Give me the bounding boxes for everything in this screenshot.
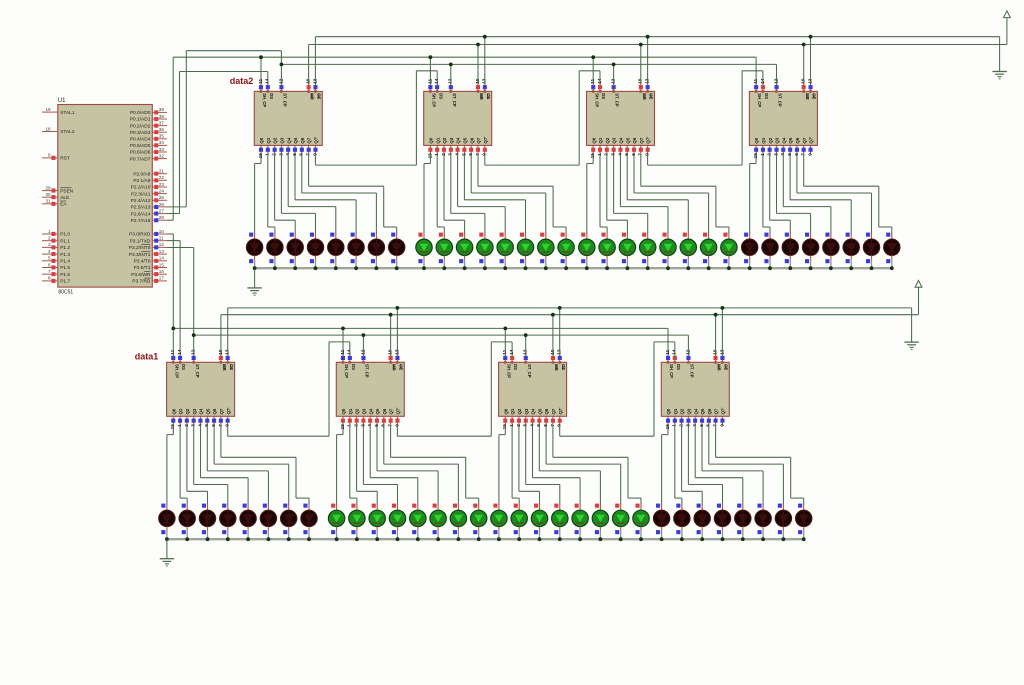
wire SR4 Q3 to LED D28: [777, 154, 811, 234]
svg-text:11: 11: [427, 78, 432, 83]
wire SR8 Q6 to LED D63: [709, 425, 784, 505]
svg-text:13: 13: [225, 349, 230, 355]
svg-text:Q5: Q5: [625, 137, 630, 143]
svg-text:DS: DS: [764, 93, 769, 99]
svg-text:9: 9: [807, 153, 812, 156]
LED D63 (dark off): [775, 504, 791, 540]
svg-text:2: 2: [184, 424, 189, 427]
svg-text:3: 3: [611, 153, 616, 156]
svg-text:Q6: Q6: [795, 137, 800, 143]
svg-text:Q6: Q6: [300, 137, 305, 143]
svg-text:SH_CP: SH_CP: [506, 364, 511, 378]
wire SR5 Q7 to LED D40: [221, 425, 309, 505]
svg-text:DS: DS: [181, 364, 186, 370]
svg-text:P0.6/AD6: P0.6/AD6: [130, 150, 151, 156]
svg-text:Q3: Q3: [362, 408, 367, 414]
svg-text:P0.4/AD4: P0.4/AD4: [130, 137, 151, 143]
svg-text:P3.1/TXD: P3.1/TXD: [130, 238, 151, 244]
wire SR1 Q5 to LED D6: [295, 154, 356, 234]
LED D59 (dark off): [694, 504, 710, 540]
svg-text:Q2: Q2: [273, 137, 278, 143]
LED D49 (green on): [491, 504, 507, 540]
svg-text:15: 15: [665, 424, 670, 430]
svg-text:2: 2: [48, 236, 51, 241]
wire SR6 Q4 to LED D45: [370, 425, 418, 505]
svg-text:Q3: Q3: [687, 408, 692, 414]
wire SR4 Q0 to LED D25: [750, 154, 756, 234]
svg-text:Q2: Q2: [768, 137, 773, 143]
junction dots on data2 LED bus: [253, 266, 894, 270]
svg-text:2: 2: [767, 153, 772, 156]
svg-text:Q7': Q7': [646, 137, 651, 144]
svg-text:P1.0: P1.0: [60, 232, 70, 238]
svg-text:1: 1: [509, 424, 514, 427]
svg-text:SH_CP: SH_CP: [432, 93, 437, 107]
wire SR5 Q5 to LED D38: [207, 425, 268, 505]
svg-text:15: 15: [427, 153, 432, 159]
svg-text:4: 4: [285, 153, 290, 156]
svg-text:P0.7/AD7: P0.7/AD7: [130, 156, 151, 162]
svg-text:ALE: ALE: [60, 195, 69, 201]
wire cascade SR2 Q7' to SR3 DS: [485, 71, 600, 165]
svg-text:14: 14: [509, 349, 514, 355]
wire SR4 Q7 to LED D32: [804, 154, 892, 234]
svg-text:5: 5: [374, 424, 379, 427]
wire SR7 Q2 to LED D51: [519, 425, 540, 505]
wire SR7 Q6 to LED D55: [546, 425, 621, 505]
LED D64 (dark off): [796, 504, 812, 540]
svg-text:ST_CP: ST_CP: [615, 93, 620, 107]
svg-text:P2.4/A12: P2.4/A12: [131, 198, 151, 204]
svg-text:13: 13: [394, 349, 399, 355]
svg-text:9: 9: [312, 153, 317, 156]
svg-text:SH_CP: SH_CP: [344, 364, 349, 378]
LED D29 (dark off): [823, 233, 839, 269]
svg-text:ST_CP: ST_CP: [452, 93, 457, 107]
wire SR6 Q1 to LED D42: [350, 425, 357, 505]
wire SR1 Q1 to LED D2: [268, 154, 275, 234]
LED D8 (dark off): [389, 233, 405, 269]
LED D39 (dark off): [281, 504, 297, 540]
svg-text:10: 10: [713, 349, 718, 355]
LED D62 (dark off): [755, 504, 771, 540]
svg-text:Q0: Q0: [341, 408, 346, 414]
svg-text:6: 6: [706, 424, 711, 427]
wire SR2 Q5 to LED D14: [464, 154, 525, 234]
svg-text:9: 9: [645, 153, 650, 156]
svg-text:3: 3: [360, 424, 365, 427]
svg-text:13: 13: [719, 349, 724, 355]
svg-text:6: 6: [299, 153, 304, 156]
svg-text:3: 3: [448, 153, 453, 156]
svg-text:13: 13: [807, 78, 812, 84]
svg-text:11: 11: [502, 349, 507, 354]
wire SR1 Q6 to LED D7: [302, 154, 377, 234]
svg-text:Q6: Q6: [212, 408, 217, 414]
svg-text:Q5: Q5: [700, 408, 705, 414]
svg-text:MR: MR: [805, 93, 810, 100]
LED D10 (green on): [436, 233, 452, 269]
wire SR2 Q0 to LED D9: [424, 154, 430, 234]
svg-text:14: 14: [177, 349, 182, 355]
svg-text:Q6: Q6: [707, 408, 712, 414]
svg-text:Q3: Q3: [449, 137, 454, 143]
svg-text:13: 13: [482, 78, 487, 84]
svg-text:15: 15: [258, 153, 263, 159]
power arrow VCC (data1 MR rail): [915, 280, 922, 287]
svg-text:DS: DS: [676, 364, 681, 370]
wire SR5 Q2 to LED D35: [187, 425, 208, 505]
svg-text:12: 12: [278, 78, 283, 84]
svg-text:1: 1: [434, 153, 439, 156]
svg-text:ST_CP: ST_CP: [195, 364, 200, 378]
svg-text:P3.5/T1: P3.5/T1: [134, 265, 151, 271]
svg-text:Q4: Q4: [781, 137, 786, 143]
svg-text:12: 12: [523, 349, 528, 355]
svg-text:8: 8: [48, 276, 51, 281]
svg-text:SH_CP: SH_CP: [669, 364, 674, 378]
LED D24 (green on): [721, 233, 737, 269]
LED D21 (green on): [660, 233, 676, 269]
wire SR8 Q2 to LED D59: [682, 425, 703, 505]
svg-text:P3.7/RD: P3.7/RD: [132, 279, 151, 285]
svg-text:10: 10: [550, 349, 555, 355]
svg-text:7: 7: [218, 424, 223, 427]
wire SR5 Q1 to LED D34: [180, 425, 187, 505]
svg-text:MR: MR: [642, 93, 647, 100]
wire SR3 Q1 to LED D18: [600, 154, 607, 234]
svg-text:OE: OE: [724, 364, 729, 370]
svg-text:Q7: Q7: [219, 408, 224, 414]
svg-text:5: 5: [48, 256, 51, 261]
junctions SH_CP rail data1: [171, 327, 507, 331]
svg-text:5: 5: [461, 153, 466, 156]
svg-text:11: 11: [340, 349, 345, 354]
LED D55 (green on): [613, 504, 629, 540]
LED D27 (dark off): [782, 233, 798, 269]
svg-text:Q0: Q0: [754, 137, 759, 143]
wire cascade SR3 Q7' to SR4 DS: [648, 71, 763, 165]
svg-text:Q4: Q4: [619, 137, 624, 143]
wire SR6 Q5 to LED D46: [377, 425, 438, 505]
svg-text:9: 9: [394, 424, 399, 427]
svg-text:data2: data2: [230, 76, 254, 86]
svg-text:P2.5/A13: P2.5/A13: [131, 205, 151, 211]
LED D34 (dark off): [179, 504, 195, 540]
LED D28 (dark off): [802, 233, 818, 269]
svg-text:17: 17: [159, 276, 165, 281]
svg-text:MR: MR: [717, 364, 722, 371]
svg-text:9: 9: [48, 153, 51, 158]
LED D6 (dark off): [348, 233, 364, 269]
svg-text:10: 10: [388, 349, 393, 355]
wire SR7 Q5 to LED D54: [539, 425, 600, 505]
LED D43 (green on): [369, 504, 385, 540]
svg-text:10: 10: [306, 78, 311, 84]
wire SR6 Q0 to LED D41: [337, 425, 343, 505]
svg-text:P3.6/WR: P3.6/WR: [131, 272, 151, 278]
svg-text:Q7: Q7: [802, 137, 807, 143]
svg-text:11: 11: [258, 78, 263, 83]
wire cascade SR5 Q7' to SR6 DS: [228, 342, 350, 436]
svg-text:9: 9: [557, 424, 562, 427]
wire SR6 Q2 to LED D43: [357, 425, 378, 505]
LED D3 (dark off): [287, 233, 303, 269]
svg-text:14: 14: [672, 349, 677, 355]
LED D56 (green on): [633, 504, 649, 540]
svg-text:7: 7: [638, 153, 643, 156]
wire SR6 Q7 to LED D48: [391, 425, 479, 505]
microcontroller U1 80C51: [58, 98, 153, 295]
svg-text:Q2: Q2: [680, 408, 685, 414]
wire SR7 Q7 to LED D56: [553, 425, 641, 505]
LED D54 (green on): [592, 504, 608, 540]
junctions ST_CP rail data1: [192, 333, 528, 337]
LED D1 (dark off): [246, 233, 262, 269]
svg-text:SH_CP: SH_CP: [262, 93, 267, 107]
svg-text:12: 12: [773, 78, 778, 84]
U1 right pins (P0.x/ADx, P2.x/Ax, P3.x): [129, 107, 167, 284]
svg-text:39: 39: [159, 107, 165, 112]
LED D57 (dark off): [653, 504, 669, 540]
svg-text:P2.6/A14: P2.6/A14: [131, 211, 151, 217]
shift register SR2 74HC595 (data2 #2): [424, 78, 492, 158]
svg-text:7: 7: [306, 153, 311, 156]
svg-text:Q7': Q7': [396, 408, 401, 415]
svg-text:Q7: Q7: [551, 408, 556, 414]
wire OE rail (data2) to ground: [315, 37, 999, 84]
svg-text:OE: OE: [486, 93, 491, 99]
svg-text:P3.4/T0: P3.4/T0: [134, 259, 151, 265]
wire SR5 Q4 to LED D37: [201, 425, 249, 505]
svg-text:19: 19: [45, 107, 51, 112]
svg-text:Q7: Q7: [639, 137, 644, 143]
svg-text:OE: OE: [317, 93, 322, 99]
wire SR3 Q5 to LED D22: [627, 154, 688, 234]
ground (data2 OE rail): [992, 72, 1006, 79]
svg-text:4: 4: [529, 424, 534, 427]
wire SR4 Q4 to LED D29: [783, 154, 831, 234]
svg-text:XTAL2: XTAL2: [60, 129, 75, 135]
svg-text:29: 29: [45, 185, 51, 190]
svg-text:12: 12: [685, 349, 690, 355]
svg-text:Q7: Q7: [714, 408, 719, 414]
LED D12 (green on): [477, 233, 493, 269]
wire U1 P2.6 to DS of SR1 (data2 serial): [167, 72, 268, 214]
wire SR3 Q6 to LED D23: [634, 154, 709, 234]
svg-text:P3.3/INT1: P3.3/INT1: [129, 252, 151, 258]
svg-text:6: 6: [48, 262, 51, 267]
svg-text:Q2: Q2: [185, 408, 190, 414]
svg-text:14: 14: [760, 78, 765, 84]
svg-text:DS: DS: [513, 364, 518, 370]
svg-text:SH_CP: SH_CP: [757, 93, 762, 107]
LED D2 (dark off): [267, 233, 283, 269]
wire SR2 Q4 to LED D13: [458, 154, 506, 234]
svg-text:18: 18: [45, 126, 51, 131]
svg-text:Q5: Q5: [375, 408, 380, 414]
svg-text:Q0: Q0: [429, 137, 434, 143]
wire SR7 Q4 to LED D53: [533, 425, 581, 505]
LED D44 (green on): [389, 504, 405, 540]
LED D40 (dark off): [301, 504, 317, 540]
svg-text:Q0: Q0: [666, 408, 671, 414]
shift register SR8 74HC595 (data1 #4): [661, 349, 729, 429]
svg-text:9: 9: [225, 424, 230, 427]
svg-text:P2.1/A9: P2.1/A9: [133, 178, 150, 184]
wire U1 P3.1 to DS of SR5 (data1 serial): [167, 241, 180, 355]
svg-text:15: 15: [340, 424, 345, 430]
svg-text:Q7': Q7': [226, 408, 231, 415]
svg-text:Q1: Q1: [761, 137, 766, 143]
wire SR7 Q0 to LED D49: [499, 425, 505, 505]
svg-text:MR: MR: [554, 364, 559, 371]
svg-text:Q6: Q6: [382, 408, 387, 414]
wire SR4 Q5 to LED D30: [790, 154, 851, 234]
svg-text:6: 6: [794, 153, 799, 156]
svg-text:Q7: Q7: [307, 137, 312, 143]
svg-text:Q2: Q2: [442, 137, 447, 143]
svg-text:Q1: Q1: [598, 137, 603, 143]
wire MR rail (data2) to power: [309, 18, 1007, 84]
svg-text:P3.0/RXD: P3.0/RXD: [129, 232, 151, 238]
svg-text:P0.3/AD3: P0.3/AD3: [130, 130, 151, 136]
svg-text:13: 13: [645, 78, 650, 84]
svg-text:Q5: Q5: [463, 137, 468, 143]
svg-text:10: 10: [638, 78, 643, 84]
svg-text:1: 1: [177, 424, 182, 427]
svg-text:SH_CP: SH_CP: [174, 364, 179, 378]
svg-text:OE: OE: [229, 364, 234, 370]
LED D7 (dark off): [368, 233, 384, 269]
svg-text:Q1: Q1: [178, 408, 183, 414]
wire SR8 Q1 to LED D58: [675, 425, 682, 505]
svg-text:10: 10: [475, 78, 480, 84]
svg-text:Q2: Q2: [517, 408, 522, 414]
svg-text:22: 22: [159, 175, 165, 180]
wire SR2 Q3 to LED D12: [451, 154, 485, 234]
svg-text:Q7': Q7': [314, 137, 319, 144]
shift register SR4 74HC595 (data2 #4): [749, 78, 817, 158]
power arrow VCC (data2 MR rail): [1004, 11, 1011, 18]
svg-text:11: 11: [753, 78, 758, 83]
LED D46 (green on): [430, 504, 446, 540]
svg-text:Q1: Q1: [266, 137, 271, 143]
shift register SR5 74HC595 (data1 #1): [167, 349, 235, 429]
svg-text:Q1: Q1: [348, 408, 353, 414]
svg-text:Q3: Q3: [192, 408, 197, 414]
svg-text:12: 12: [448, 78, 453, 84]
LED D25 (dark off): [742, 233, 758, 269]
svg-text:Q0: Q0: [503, 408, 508, 414]
svg-text:1: 1: [48, 229, 51, 234]
LED D52 (green on): [552, 504, 568, 540]
wire SR8 Q3 to LED D60: [688, 425, 722, 505]
svg-text:Q7': Q7': [483, 137, 488, 144]
svg-text:OE: OE: [812, 93, 817, 99]
svg-text:P1.6: P1.6: [60, 272, 70, 278]
svg-text:Q4: Q4: [368, 408, 373, 414]
svg-text:Q7': Q7': [809, 137, 814, 144]
svg-text:Q3: Q3: [280, 137, 285, 143]
svg-text:ST_CP: ST_CP: [778, 93, 783, 107]
svg-text:11: 11: [159, 236, 164, 241]
wire SR4 Q2 to LED D27: [770, 154, 791, 234]
svg-text:MR: MR: [222, 364, 227, 371]
junctions SH_CP rail data2: [259, 55, 595, 59]
svg-text:Q5: Q5: [205, 408, 210, 414]
svg-text:13: 13: [159, 249, 165, 254]
svg-text:MR: MR: [479, 93, 484, 100]
LED D17 (green on): [579, 233, 595, 269]
svg-text:ST_CP: ST_CP: [690, 364, 695, 378]
svg-text:6: 6: [543, 424, 548, 427]
svg-text:14: 14: [159, 256, 165, 261]
wire U1 P2.7 to SH_CP rail (data2 clock): [167, 57, 756, 220]
wire SR1 Q7 to LED D8: [309, 154, 397, 234]
wire SR8 Q4 to LED D61: [695, 425, 743, 505]
svg-text:6: 6: [468, 153, 473, 156]
svg-text:13: 13: [312, 78, 317, 84]
wire cascade SR7 Q7' to SR8 DS: [560, 342, 675, 436]
svg-text:2: 2: [354, 424, 359, 427]
svg-text:Q1: Q1: [435, 137, 440, 143]
svg-text:4: 4: [780, 153, 785, 156]
svg-text:P2.7/A15: P2.7/A15: [131, 218, 151, 224]
ground (data2 LED bus): [247, 268, 261, 295]
svg-text:4: 4: [367, 424, 372, 427]
svg-text:DS: DS: [601, 93, 606, 99]
svg-text:Q7': Q7': [721, 408, 726, 415]
LED D58 (dark off): [674, 504, 690, 540]
LED D61 (dark off): [735, 504, 751, 540]
shift register SR1 74HC595 (data2 #1): [254, 78, 322, 158]
net label data2: [230, 76, 254, 86]
svg-text:Q5: Q5: [293, 137, 298, 143]
LED D41 (green on): [328, 504, 344, 540]
svg-text:RST: RST: [60, 156, 70, 162]
svg-text:P1.5: P1.5: [60, 265, 70, 271]
svg-text:6: 6: [211, 424, 216, 427]
svg-text:3: 3: [191, 424, 196, 427]
LED D5 (dark off): [328, 233, 344, 269]
wire SR2 Q7 to LED D16: [478, 154, 566, 234]
svg-text:P1.4: P1.4: [60, 259, 70, 265]
wire SR3 Q4 to LED D21: [620, 154, 668, 234]
junctions MR rail data2: [476, 43, 805, 47]
svg-text:P2.0/A8: P2.0/A8: [133, 171, 150, 177]
LED D13 (green on): [497, 233, 513, 269]
svg-text:1: 1: [347, 424, 352, 427]
svg-text:32: 32: [159, 153, 165, 158]
svg-text:Q1: Q1: [510, 408, 515, 414]
wire SR1 Q4 to LED D5: [288, 154, 336, 234]
svg-text:15: 15: [753, 153, 758, 159]
wire SR8 Q0 to LED D57: [662, 425, 668, 505]
LED D53 (green on): [572, 504, 588, 540]
LED D19 (green on): [619, 233, 635, 269]
svg-text:DS: DS: [351, 364, 356, 370]
svg-text:DS: DS: [438, 93, 443, 99]
wire SR8 Q5 to LED D62: [702, 425, 763, 505]
svg-text:3: 3: [278, 153, 283, 156]
wire SR6 Q6 to LED D47: [384, 425, 459, 505]
LED D36 (dark off): [220, 504, 236, 540]
svg-text:ST_CP: ST_CP: [365, 364, 370, 378]
LED D11 (green on): [456, 233, 472, 269]
svg-text:Q4: Q4: [693, 408, 698, 414]
svg-text:7: 7: [388, 424, 393, 427]
